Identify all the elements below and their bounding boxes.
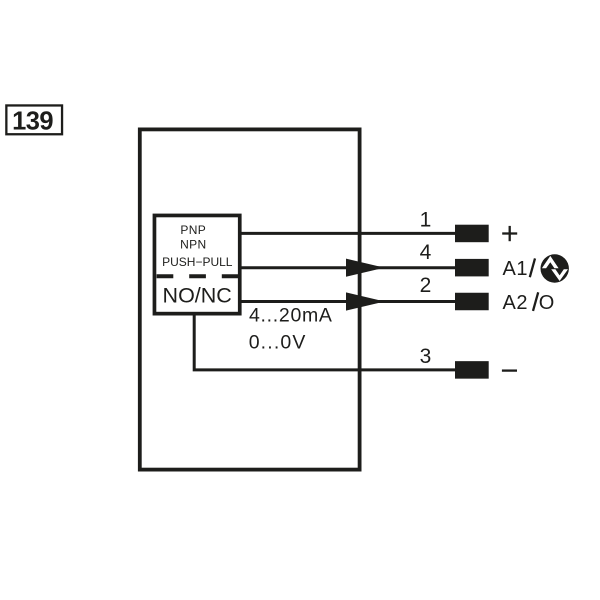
slash before O bbox=[533, 292, 538, 311]
wire 3 bbox=[194, 314, 455, 370]
wire 4 bbox=[238, 266, 455, 269]
svg-text:PUSH−PULL: PUSH−PULL bbox=[162, 255, 233, 269]
svg-text:3: 3 bbox=[420, 345, 432, 368]
analog output icon bbox=[541, 254, 569, 282]
svg-text:PNP: PNP bbox=[180, 223, 206, 237]
svg-text:O: O bbox=[539, 292, 555, 314]
terminal 3 bbox=[455, 361, 489, 379]
plus label for wire 1 bbox=[502, 226, 517, 241]
terminal 4 bbox=[455, 259, 489, 277]
output stage box U1 bbox=[154, 215, 239, 313]
sensor housing outline bbox=[140, 129, 360, 469]
svg-text:1: 1 bbox=[420, 209, 432, 232]
wire 2 bbox=[238, 300, 455, 303]
arrow on wire 2 bbox=[346, 292, 385, 310]
figure number box bbox=[6, 105, 62, 134]
svg-text:NO/NC: NO/NC bbox=[163, 284, 232, 308]
svg-text:139: 139 bbox=[12, 107, 53, 135]
dashed separator line bbox=[157, 274, 239, 278]
svg-text:A1: A1 bbox=[503, 258, 528, 280]
arrow on wire 4 bbox=[346, 259, 385, 277]
svg-text:A2: A2 bbox=[503, 292, 528, 314]
minus label for wire 3 bbox=[502, 369, 517, 371]
svg-text:2: 2 bbox=[420, 274, 432, 297]
terminal 2 bbox=[455, 293, 489, 311]
svg-text:NPN: NPN bbox=[180, 238, 206, 252]
svg-text:4: 4 bbox=[420, 241, 432, 264]
terminal 1 bbox=[455, 225, 489, 243]
svg-text:4...20mA: 4...20mA bbox=[249, 305, 333, 327]
slash after A1 bbox=[530, 258, 535, 277]
wire 1 bbox=[238, 232, 455, 235]
svg-text:0...0V: 0...0V bbox=[249, 332, 307, 354]
